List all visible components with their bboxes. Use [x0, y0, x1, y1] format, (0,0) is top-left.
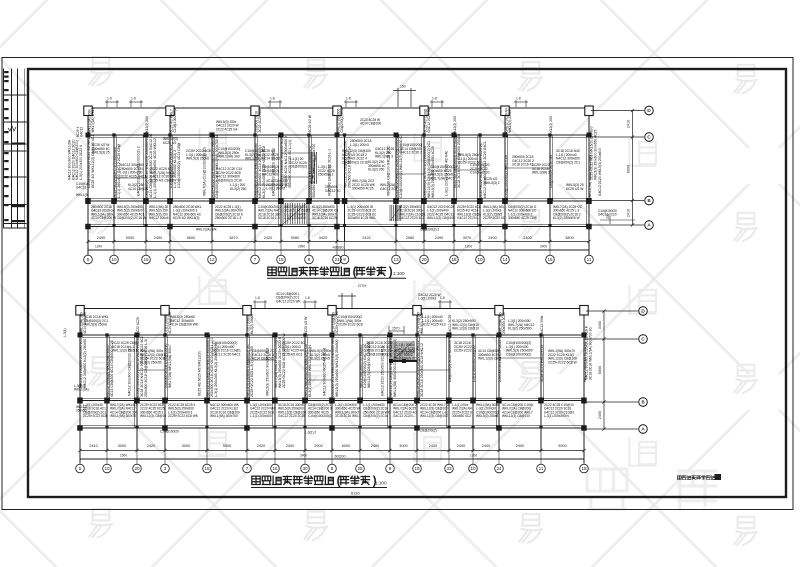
beam label left: [323, 348, 327, 396]
beam label: [274, 333, 286, 388]
top plan right bubble D: [645, 106, 654, 115]
svg-text:L-3(1) 200x300: L-3(1) 200x300: [284, 216, 306, 220]
beam label group: [556, 149, 581, 164]
beam label: [254, 143, 266, 198]
svg-text:C8@200(2): C8@200(2): [290, 165, 307, 169]
svg-text:200: 200: [606, 213, 610, 219]
bottom plan right bubble A: [639, 425, 648, 434]
bottom plan roof edge beam: [78, 308, 586, 310]
beam label: [136, 336, 148, 397]
svg-text:WKL12(3) C8@100: WKL12(3) C8@100: [427, 216, 455, 220]
svg-text:4C14 C8@200 WK: 4C14 C8@200 WK: [170, 323, 199, 327]
svg-text:5980: 5980: [291, 236, 299, 240]
svg-text:G4C12 2C20 N4C1: G4C12 2C20 N4C1: [212, 352, 241, 356]
bottom plan vertical axis beams: [79, 335, 81, 451]
svg-text:3420: 3420: [319, 236, 327, 240]
tick mark above roof beam: [129, 100, 143, 107]
svg-text:6C25 4/2 W: 6C25 4/2 W: [566, 187, 584, 191]
beam label: [504, 154, 508, 198]
svg-text:3000: 3000: [118, 444, 126, 448]
beam label: [106, 340, 114, 397]
svg-text:C10@100/20: C10@100/20: [470, 171, 490, 175]
svg-text:7: 7: [254, 257, 257, 262]
svg-text:KL3(2) 250x500 W: KL3(2) 250x500 W: [553, 216, 580, 220]
beam label: [389, 335, 397, 397]
section mark above top plan: [393, 88, 416, 107]
beam label: [206, 335, 218, 397]
beam label: [395, 133, 403, 198]
beam label: [479, 141, 487, 198]
svg-text:6C25 4/2 WKL5(3): 6C25 4/2 WKL5(3): [173, 216, 199, 220]
svg-text:19: 19: [414, 466, 420, 471]
svg-text:2990: 2990: [298, 245, 305, 249]
beam label group: [430, 165, 455, 180]
top plan interior partitions: [114, 153, 550, 185]
svg-text:WKL5(3) 250x6: WKL5(3) 250x6: [186, 157, 209, 161]
beam label group: [282, 341, 305, 356]
svg-text:6C25 4/2 W: 6C25 4/2 W: [308, 114, 312, 132]
beam label: [540, 345, 544, 382]
top plan right dimension texts: [627, 120, 631, 217]
svg-text:12: 12: [209, 257, 215, 262]
svg-text:6: 6: [169, 257, 172, 262]
svg-text:N4C12 300x600 KL3(2) 250x50: N4C12 300x600 KL3(2) 250x50: [83, 339, 87, 388]
stair hatch: [283, 203, 307, 224]
lower band label: [215, 205, 243, 220]
svg-text:C10@100/200(2) WKL7(2A: C10@100/200(2) WKL7(2A: [504, 154, 508, 198]
svg-text:G4C12 2C: G4C12 2C: [325, 189, 341, 193]
svg-text:6C25 4/2 W: 6C25 4/2 W: [304, 316, 308, 334]
top plan columns at bottom beam: [85, 224, 91, 230]
top plan bottom beam: [86, 226, 591, 228]
bottom plan bottom beam: [78, 427, 586, 429]
svg-text:C8@200(2) 2C16: C8@200(2) 2C16: [216, 178, 242, 182]
svg-text:WKL5(3) 250x600 300x650 4C25: WKL5(3) 250x600 300x650 4C25: [593, 130, 597, 180]
beam label group: [150, 167, 175, 182]
svg-text:C8@200(2) 2C: C8@200(2) 2C: [394, 357, 417, 361]
beam label group: [84, 315, 109, 327]
svg-text:3400: 3400: [598, 321, 602, 329]
svg-text:2400: 2400: [523, 236, 531, 240]
svg-text:2400: 2400: [371, 444, 379, 448]
beam label group: [140, 349, 165, 364]
svg-text:4C14 C8@2: 4C14 C8@2: [262, 157, 280, 161]
svg-text:WKL12(3) C8@: WKL12(3) C8@: [478, 357, 502, 361]
svg-text:9: 9: [389, 466, 392, 471]
svg-text:2490: 2490: [97, 236, 105, 240]
svg-text:6000: 6000: [598, 366, 602, 374]
beam label left: [128, 346, 132, 396]
beam label group: [120, 163, 146, 178]
beam label group: [212, 341, 241, 356]
lower band label: [312, 205, 338, 220]
roof beam label: [448, 315, 452, 334]
svg-text:G4C12 2C20 2: G4C12 2C20 2: [400, 151, 422, 155]
svg-text:5600: 5600: [187, 236, 195, 240]
lower band label: [117, 205, 146, 220]
svg-text:3070: 3070: [463, 236, 471, 240]
inner border frame: [28, 69, 786, 497]
svg-text:11: 11: [539, 466, 544, 471]
svg-text:G4C12 2C20 L-: G4C12 2C20 L-: [393, 414, 415, 418]
top plan right bubble C: [645, 133, 654, 142]
svg-text:C10@100/200(2): C10@100/200(2): [506, 352, 531, 356]
svg-text:2900: 2900: [516, 444, 524, 448]
svg-text:4C14 C8@20: 4C14 C8@20: [128, 187, 148, 191]
beam label: [583, 337, 587, 382]
beam label group: [325, 185, 341, 193]
svg-text:3C18 2C16 250x500 2C18 WKL12: 3C18 2C16 250x500 2C18 WKL12: [420, 343, 424, 397]
svg-text:2420: 2420: [362, 236, 370, 240]
beam label group: [350, 139, 372, 147]
roof beam label: [80, 312, 88, 334]
title block row labels: [4, 71, 25, 222]
svg-text:49680: 49680: [332, 245, 344, 250]
svg-text:250x500 2C18: 250x500 2C18: [502, 312, 506, 334]
beam label: [448, 337, 452, 382]
svg-text:1240: 1240: [95, 245, 102, 249]
beam label group: [532, 163, 550, 175]
svg-text:2C25+2C22 6C8 W: 2C25+2C22 6C8 W: [548, 360, 578, 364]
beam label: [145, 133, 157, 198]
beam label group: [478, 349, 502, 361]
top plan roof edge beam: [86, 107, 591, 109]
roof beam label: [424, 108, 432, 133]
beam label group: [470, 163, 490, 175]
beam label: [498, 337, 502, 382]
svg-text:1200: 1200: [465, 245, 472, 249]
svg-text:6C25 4/2 C8@2: 6C25 4/2 C8@2: [150, 178, 174, 182]
top plan right bubble B: [645, 196, 654, 205]
roof strip label: [360, 118, 381, 126]
bottom plan right dimension texts: [598, 321, 602, 419]
bottom plan band top beam: [78, 334, 586, 336]
stair label block: [396, 343, 418, 355]
outer border frame: [2, 58, 793, 510]
svg-text:G4C12 2C20 3C1: G4C12 2C20 3C1: [399, 216, 425, 220]
svg-text:150: 150: [400, 85, 406, 89]
lower band label: [140, 403, 166, 418]
svg-text:2C22 4C25 G4: 2C22 4C25 G4: [216, 127, 237, 131]
svg-text:WKL1(9A) 300x70: WKL1(9A) 300x70: [110, 414, 136, 418]
bottom plan middle beam: [78, 400, 586, 402]
svg-text:18: 18: [581, 466, 587, 471]
svg-text:(: (: [353, 267, 357, 279]
svg-text:G7H: G7H: [358, 283, 366, 288]
beam label group: [262, 149, 280, 161]
svg-text:10: 10: [470, 466, 476, 471]
lower band label: [250, 403, 277, 418]
svg-text:5: 5: [79, 466, 82, 471]
svg-text:8: 8: [331, 466, 334, 471]
lower band label: [168, 403, 199, 418]
svg-text:WKL7(2A) WKL5: WKL7(2A) WKL5: [91, 107, 95, 132]
lower band label: [91, 205, 116, 220]
svg-text:1-8: 1-8: [255, 296, 260, 300]
top plan column stubs top row: [87, 108, 89, 135]
svg-text:1-8: 1-8: [346, 97, 351, 101]
svg-text:KL3(2) 250: KL3(2) 250: [230, 187, 246, 191]
right small label: [598, 209, 617, 217]
top plan axis bubble row: [84, 255, 594, 264]
svg-text:25: 25: [357, 466, 363, 471]
svg-text:2420: 2420: [147, 444, 155, 448]
beam label group: [380, 183, 398, 191]
svg-text:2900: 2900: [314, 444, 322, 448]
below-line label: [420, 429, 437, 433]
svg-text:6110: 6110: [351, 491, 360, 496]
svg-text:15: 15: [278, 257, 284, 262]
roof beam label: [308, 114, 312, 132]
left small marks: [76, 405, 88, 413]
svg-text:33: 33: [446, 466, 452, 471]
svg-text:2490: 2490: [435, 236, 443, 240]
lower band label: [258, 205, 282, 220]
svg-text:WKL5(3) 250x6: WKL5(3) 250x6: [476, 414, 498, 418]
svg-text:2C25+2C22 6C8 WK: 2C25+2C22 6C8 WK: [168, 414, 199, 418]
svg-text:2420: 2420: [257, 444, 265, 448]
section mark above bottom plan: [338, 293, 356, 309]
svg-text:16: 16: [547, 257, 553, 262]
svg-text:3000: 3000: [399, 444, 407, 448]
svg-text:3870: 3870: [229, 236, 237, 240]
svg-text:C8@200(2) 2C16 300x650 4: C8@200(2) 2C16 300x650 4: [448, 337, 452, 382]
svg-text:9: 9: [343, 257, 346, 262]
beam label: [280, 136, 292, 188]
lower band label: [420, 403, 449, 418]
svg-text:250x500 2C18 L-3: 250x500 2C18 L-3: [215, 216, 241, 220]
title block table: [4, 69, 27, 229]
svg-text:7: 7: [246, 466, 249, 471]
svg-text:WKL5(3) 2: WKL5(3) 2: [484, 181, 500, 185]
beam label group: [92, 143, 110, 155]
beam label group: [566, 183, 584, 191]
svg-text:6000: 6000: [342, 444, 350, 448]
svg-text:WKL5(3) 25: WKL5(3) 25: [92, 151, 110, 155]
top plan axis stems: [88, 242, 589, 256]
bottom plan column stubs top row: [79, 309, 81, 336]
tick mark above beam: [253, 300, 267, 309]
lower band label: [553, 205, 583, 220]
svg-text:L-3(1) 200x300 N: L-3(1) 200x300 N: [544, 414, 570, 418]
beam label group: [128, 183, 148, 191]
left top tiny text: [76, 126, 84, 137]
svg-text:1:100: 1:100: [393, 271, 405, 276]
svg-text:G4C12 2C20 2C25: G4C12 2C20 2C25: [278, 414, 305, 418]
top plan vertical axis beams: [87, 135, 89, 242]
svg-text:8: 8: [308, 257, 311, 262]
lower band label: [483, 205, 506, 220]
left small marks: [76, 193, 88, 197]
left small marks: [76, 182, 89, 190]
beam label group: [338, 315, 363, 327]
lower band label: [399, 205, 426, 220]
stair hatch small: [311, 152, 317, 184]
svg-text:C10@100/200(2) 4C14 C8@: C10@100/200(2) 4C14 C8@: [177, 142, 181, 188]
bottom plan parallel beam lines: [109, 335, 111, 401]
small dim bracket in bottom plan upper strip: [389, 326, 404, 334]
svg-text:WKL12(3) C8@100: WKL12(3) C8@100: [502, 414, 530, 418]
svg-text:(: (: [337, 476, 341, 488]
svg-text:C8@200(2) 2C1: C8@200(2) 2C1: [556, 160, 580, 164]
beam label left: [381, 346, 385, 396]
label above beam: [418, 293, 441, 301]
svg-text:2420: 2420: [264, 236, 272, 240]
roof strip label: [216, 120, 239, 131]
svg-text:WKL12(3) C8@1: WKL12(3) C8@1: [112, 349, 137, 353]
svg-text:18: 18: [451, 257, 457, 262]
roof beam label: [549, 116, 553, 132]
svg-text:KL3(2) 250: KL3(2) 250: [368, 168, 384, 172]
top plan columns at band top: [86, 133, 91, 138]
svg-text:300x650 4C25: 300x650 4C25: [352, 187, 374, 191]
svg-text:KL3(2) 250: KL3(2) 250: [145, 116, 149, 132]
svg-text:KL3(2) 250x5: KL3(2) 250x5: [250, 314, 254, 334]
top plan dimension row: [86, 240, 590, 243]
beam label group: [366, 341, 392, 356]
left small marks: [74, 384, 89, 392]
svg-text:10: 10: [104, 466, 110, 471]
svg-text:G4C12 2C2: G4C12 2C2: [380, 187, 398, 191]
roof beam label: [540, 315, 544, 334]
beam label left: [137, 146, 141, 196]
roof beam label: [145, 116, 149, 132]
svg-text:G4C12: G4C12: [80, 127, 84, 137]
svg-text:WKL12(3) C8@10: WKL12(3) C8@10: [452, 327, 479, 331]
beam label group: [548, 349, 578, 364]
svg-text:1200: 1200: [470, 454, 477, 458]
svg-text:21: 21: [334, 257, 340, 262]
roof beam label: [453, 116, 457, 132]
svg-text:KL3(2) 250x500: KL3(2) 250x500: [508, 327, 532, 331]
below-line label: [305, 431, 316, 435]
beam label: [416, 340, 424, 397]
lower band label: [393, 403, 417, 418]
beam label: [423, 141, 435, 198]
svg-text:18: 18: [204, 466, 210, 471]
beam label group: [218, 147, 241, 159]
bottom plan beam end marks at bottom beam: [105, 426, 108, 429]
roof beam label: [337, 108, 345, 132]
beam label group: [400, 143, 423, 155]
beam label left: [445, 150, 449, 196]
svg-text:N4C12 300: N4C12 300: [262, 173, 279, 177]
svg-text:3C18 2C16 6C25: 3C18 2C16 6C25: [312, 216, 337, 220]
svg-text:1570: 1570: [392, 327, 400, 331]
svg-text:3000: 3000: [182, 444, 190, 448]
svg-text:L-1(1) 200x400: L-1(1) 200x400: [250, 414, 272, 418]
bottom plan dimension row: [78, 449, 585, 452]
beam label: [113, 143, 121, 198]
lower band label: [363, 403, 391, 418]
left tiny text: [63, 328, 67, 337]
lower band label: [427, 205, 455, 220]
svg-text:WKL12(3) C8@10: WKL12(3) C8@10: [140, 414, 166, 418]
bottom plan right dimension lines: [586, 309, 638, 430]
svg-text:WKL5(3) 250x6: WKL5(3) 250x6: [508, 109, 512, 132]
lower band label: [83, 403, 107, 418]
lower band label: [149, 205, 169, 220]
top plan columns at middle beam: [85, 198, 91, 204]
label above beam: [276, 292, 301, 303]
lower band label: [278, 403, 306, 418]
svg-text:250x500 2: 250x500 2: [318, 173, 334, 177]
beam label group: [368, 160, 386, 172]
beam label group: [484, 177, 500, 185]
svg-text:4C14 C8@200: 4C14 C8@200: [360, 122, 381, 126]
top plan beam end marks at band top: [112, 133, 115, 136]
tick mark above roof beam: [344, 100, 358, 107]
beam label group: [252, 349, 275, 361]
svg-text:N4C12 300x6: N4C12 300x6: [149, 216, 169, 220]
top plan beam end marks at bottom beam: [112, 224, 115, 227]
sub dimension texts: [95, 245, 547, 249]
roof beam label: [255, 109, 263, 133]
svg-text:2400: 2400: [488, 236, 496, 240]
svg-text:2490: 2490: [154, 236, 162, 240]
beam label: [472, 345, 476, 382]
lower band label: [544, 403, 575, 418]
lower band label: [308, 403, 332, 418]
svg-text:C8@200(2) 2C16: C8@200(2) 2C16: [342, 160, 368, 164]
beam label: [87, 135, 95, 188]
svg-text:WKL1(9A) 3: WKL1(9A) 3: [375, 155, 393, 159]
beam label: [331, 336, 339, 397]
beam label: [549, 155, 553, 188]
lower band label: [284, 205, 310, 220]
svg-text:1-8: 1-8: [516, 97, 521, 101]
roof beam label: [136, 317, 140, 334]
svg-text:2410: 2410: [627, 120, 631, 128]
svg-text:300x650 4C25 WKL: 300x650 4C25 WKL: [348, 216, 377, 220]
svg-text:WKL1(9A) 300x700 C10@100/200(2: WKL1(9A) 300x700 C10@100/200(2): [393, 339, 397, 397]
top plan overall dimension: [88, 249, 589, 251]
svg-text:2400: 2400: [540, 245, 547, 249]
svg-text:L-3(1) 200x300 C8@20: L-3(1) 200x300 C8@20: [472, 345, 476, 382]
svg-text:L-3(1) 200x3: L-3(1) 200x3: [266, 187, 285, 191]
svg-text:G4C12 2C20 WKL5(3) 250x600: G4C12 2C20 WKL5(3) 250x600: [598, 148, 602, 196]
svg-text:2C25+2C22 6C: 2C25+2C22 6C: [483, 216, 506, 220]
svg-text:2400: 2400: [429, 444, 437, 448]
beam label: [304, 344, 312, 397]
svg-text:N4C12 300x600 C8@200(2) 2C1: N4C12 300x600 C8@200(2) 2C1: [128, 346, 132, 396]
bottom plan overall dimension: [80, 458, 584, 460]
beam label left: [198, 351, 202, 396]
svg-text:300x650 4C25 WKL1(9A) 300x700: 300x650 4C25 WKL1(9A) 300x700: [312, 144, 316, 198]
svg-text:2C25+2C22 6C8: 2C25+2C22 6C8: [338, 323, 363, 327]
svg-text:4C14 C8@200: 4C14 C8@200: [252, 357, 274, 361]
svg-text:1-8: 1-8: [440, 296, 445, 300]
svg-text:C10@100/200(2: C10@100/200(2: [308, 414, 332, 418]
bottom plan right bubble D: [639, 307, 648, 316]
top plan title glyphs: [268, 267, 350, 275]
beam label: [169, 142, 181, 188]
beam label: [344, 141, 352, 188]
svg-text:KL3(2) 250x5: KL3(2) 250x5: [310, 357, 330, 361]
roof beam label: [304, 316, 308, 334]
top plan right dimension lines: [591, 109, 644, 227]
beam label group: [394, 349, 417, 361]
svg-text:2C22 4C25 N4C1: 2C22 4C25 N4C1: [120, 174, 146, 178]
svg-text:2C22 4C25: 2C22 4C25: [136, 317, 140, 334]
beam label group: [452, 319, 479, 331]
tick mark above roof beam: [105, 100, 119, 107]
beam label group: [230, 183, 246, 191]
svg-text:B: B: [647, 198, 650, 203]
tick mark above roof beam: [430, 100, 444, 107]
svg-text:11: 11: [587, 257, 592, 262]
beam label group: [290, 157, 307, 169]
